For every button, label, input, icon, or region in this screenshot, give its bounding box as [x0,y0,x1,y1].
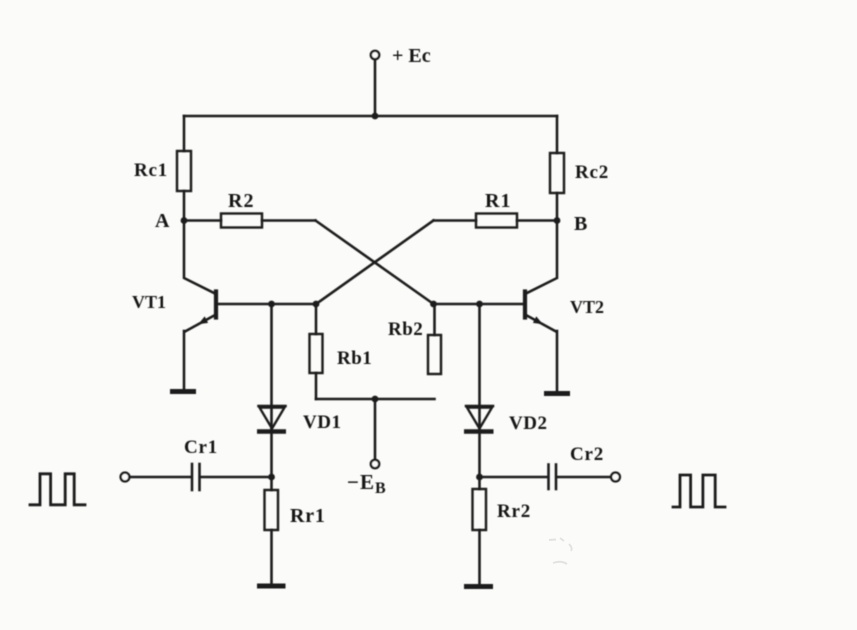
wire R2 to bend [262,219,316,222]
diode VD2 [464,406,494,432]
wire Rb1 top lead [315,304,318,334]
wire node B down to VT2 collector [526,221,557,294]
svg-text:VD1: VD1 [303,412,341,433]
junction node (VD1 branch on VT1 base) [268,301,275,308]
diode VD1 [257,406,286,432]
wire bottom loop Rb1 to Rb2 [316,398,435,401]
resistor Rb1 [310,334,323,373]
wire node A down to VT1 collector [184,221,215,294]
resistor Rc1 [177,151,191,191]
wire Rb1 bottom lead [315,373,318,399]
ground (Rr1) [257,584,286,589]
resistor Rr1 [265,490,279,530]
resistor Rc2 [550,153,564,193]
wire VT1 base to VD1 [270,304,273,428]
wire Rc2 to node B [556,193,559,221]
svg-text:Rr2: Rr2 [497,501,531,522]
capacitor Cr1 [192,464,200,490]
wire VT1 base line [216,303,316,306]
node A [181,217,188,224]
wire trigger node to Cr2 [480,476,548,479]
wire VT1 emitter down [183,331,186,389]
svg-text:Rb2: Rb2 [388,319,423,340]
wire rail to Rc2 [556,116,559,153]
junction node (right trigger) [476,474,483,481]
svg-text:Rb1: Rb1 [337,348,372,369]
capacitor Cr2 [549,465,557,490]
junction node (Rb2 on VT2 base) [430,301,437,308]
wire Rc1 to node A [183,191,186,221]
junction node (left trigger) [268,474,275,481]
wire Cr1 to trigger node [201,476,272,479]
power terminal +Ec [371,51,379,59]
junction node (VD2 branch on VT2 base) [476,301,483,308]
wire cross-coupling from R2 to VT2 base node [316,221,434,305]
svg-text:R2: R2 [228,190,254,212]
resistor Rb2 [428,335,441,374]
input terminal (left) [121,473,130,482]
svg-text:VT2: VT2 [570,297,604,317]
wire +Ec stem [374,60,377,117]
svg-text:Rc2: Rc2 [575,162,609,183]
wire to -EB terminal [374,399,377,460]
wire trigger node to Rr1 [270,477,273,490]
junction dot (EB tap) [372,396,379,403]
wire rail to Rc1 [183,116,186,151]
wire input to Cr1 [130,476,191,479]
wire Rr1 to ground [270,530,273,584]
svg-text:+ Ec: + Ec [392,45,431,67]
wire VD1 to trigger node [270,428,273,477]
svg-text:R1: R1 [485,190,511,212]
wire Cr2 to output terminal [558,476,612,479]
svg-text:Rr1: Rr1 [290,505,326,527]
wire trigger node to Rr2 [478,477,481,489]
wire R1 left lead [434,219,477,222]
svg-text:Rc1: Rc1 [134,160,168,181]
svg-text:VT1: VT1 [132,292,166,312]
svg-text:A: A [155,210,170,232]
resistor Rr2 [473,489,487,530]
svg-text:VD2: VD2 [509,413,547,434]
wire Rb2 top lead [433,304,436,335]
node B [554,217,561,224]
svg-text:Cr2: Cr2 [570,444,604,465]
output pulse waveform (right) [673,475,725,507]
output terminal (right) [611,473,620,482]
wire VD2 to trigger node [478,428,481,477]
wire R1 to node B [517,219,557,222]
wire VT2 base line [434,303,526,306]
junction dot (+Ec on rail) [372,113,379,120]
ground (Rr2) [464,584,493,589]
input pulse waveform (left) [30,474,85,505]
wire node A to R2 [184,219,221,222]
transistor VT1 [185,292,216,332]
power terminal -EB [371,460,379,468]
transistor VT2 [525,292,556,332]
wire VT2 emitter down [556,331,559,391]
svg-text:Cr1: Cr1 [184,437,218,458]
svg-text:B: B [574,213,587,235]
junction node (R1/Rb1 on VT1 base) [313,301,320,308]
wire VT2 base to VD2 [478,304,481,428]
wire Rr2 to ground [478,530,481,584]
resistor R2 [221,214,262,228]
resistor R1 [476,214,517,228]
faint smudge (decorative) placed before labelled elements [549,538,572,564]
wire cross-coupling from R1 to VT1 base node [316,221,434,305]
ground (VT2 emitter) [544,391,570,396]
top supply rail wire [184,115,557,118]
ground (VT1 emitter) [170,389,196,394]
